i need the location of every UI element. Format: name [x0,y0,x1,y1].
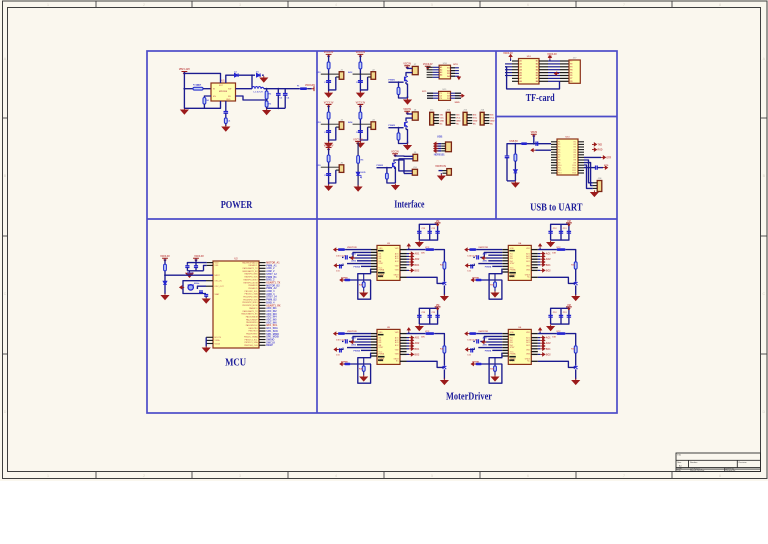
wire right top2 5 [434,334,444,346]
svg-text:VCC3.3V: VCC3.3V [305,84,315,87]
arrow vm out 6 [539,328,542,332]
svg-text:PB11/I2C_SDA: PB11/I2C_SDA [245,293,259,296]
svg-text:4: 4 [335,3,337,7]
resistor bead bottom 3 [344,279,350,282]
resistor R4a [359,112,362,119]
svg-text:BO2: BO2 [415,354,420,356]
wires USB [436,143,441,145]
driver pin names 5 [379,332,400,363]
pin text U10 [440,66,450,78]
connector pin stub 2 [368,76,371,78]
driver cap cluster loop 3 [419,224,437,240]
svg-text:BO1: BO1 [546,349,551,351]
wire stby 5 [347,347,371,349]
svg-text:SIG: SIG [490,115,494,117]
wire flag to JM3a pin1 [395,155,413,157]
wire res to transistor 4 [575,269,577,281]
svg-text:PA11/USBDM: PA11/USBDM [246,315,258,318]
svg-text:2: 2 [143,474,145,478]
svg-text:Sheet1.SchDoc: Sheet1.SchDoc [690,469,704,472]
ground GND boot [203,346,210,352]
wire U1 bst up [184,73,220,83]
driver left pin stubs 6 [502,333,508,335]
wire in2 4 [488,254,502,256]
wire pwmb loop 5 [358,353,371,383]
driver right pin stubs 5 [400,333,407,335]
svg-text:B2: B2 [447,70,449,72]
capacitor C3a [326,131,331,133]
section divider vertical x=317 [316,51,318,413]
svg-text:VCC: VCC [440,118,445,120]
capacitor C20 [186,264,188,267]
capacitor cluster C3a [417,231,421,233]
arrow U11 [460,94,465,97]
wire R5 gnd [225,123,227,126]
arrow bottom 6 [471,363,476,366]
svg-text:PWM3: PWM3 [377,165,384,167]
svg-text:A3: A3 [520,66,522,69]
capacitor left 6b [471,348,473,352]
svg-text:A8: A8 [520,80,522,83]
title block frame [676,453,761,472]
power flag M2 [404,111,410,114]
wire in4 3 [357,260,371,262]
svg-text:BEEP: BEEP [266,344,273,347]
pin names U13 [558,142,576,175]
wire Q3 source [394,168,395,183]
wire L route 2 [360,77,367,90]
pin stub right 18 [259,310,266,312]
pin stub right 5 [259,273,266,275]
svg-text:VCC3.3V: VCC3.3V [356,52,366,54]
svg-text:POWER: POWER [221,200,253,211]
ground GND J16 [438,174,445,180]
svg-text:VM2: VM2 [395,350,399,352]
ground GND2 [357,91,364,97]
svg-text:PWMA: PWMA [485,265,492,268]
svg-text:VSSA: VSSA [215,339,221,342]
svg-text:BO2: BO2 [546,270,551,272]
power flag cluster 3 [435,223,441,226]
svg-text:A2: A2 [520,63,522,66]
wire FB junction [266,99,268,101]
pin line 3 [321,123,339,125]
svg-text:AO1: AO1 [546,337,551,340]
crystal Y1 [188,285,193,290]
svg-text:AIN1: AIN1 [483,252,489,255]
wire R20 to led [514,161,516,169]
pin stub right 28 [259,339,266,341]
ground GND loop 4 [491,291,498,297]
pin stub right 16 [259,304,266,306]
wire right long 5 [407,361,445,367]
svg-text:HDR01B1: HDR01B1 [434,154,446,157]
svg-text:VBAT: VBAT [215,293,221,296]
svg-text:VIN 5-12V: VIN 5-12V [179,68,190,71]
crystal loop [183,281,206,294]
wire res to transistor 6 [575,353,577,365]
connector J3 [339,122,344,130]
svg-text:BO1: BO1 [415,265,420,267]
pin stub right 20 [259,316,266,318]
svg-text:AD1: AD1 [316,71,321,74]
mcu pin names inside [241,261,258,347]
svg-text:VCC: VCC [425,331,430,333]
transistor right 4 [574,281,578,285]
svg-text:3: 3 [239,3,241,7]
wire pwmb loop 6 [489,353,502,383]
transistor Q2 [404,122,406,127]
wire stby 3 [347,263,371,265]
connector J1 [339,72,344,80]
mcu bottom-left pins [206,336,213,338]
resistor right v 6 [574,346,577,353]
svg-text:B3: B3 [447,73,449,75]
svg-text:BO2: BO2 [546,354,551,356]
svg-text:PWMB: PWMB [341,361,348,363]
svg-text:PWMA: PWMA [510,269,516,272]
svg-text:SWD: SWD [454,102,460,104]
gate wire 2 [388,127,403,129]
power flag mcu vdd [193,258,199,261]
wire right long 4 [538,277,576,283]
svg-text:AIN2: AIN2 [483,344,489,347]
svg-text:PA0/WKUP/ADC0: PA0/WKUP/ADC0 [242,261,257,264]
svg-text:VM: VM [567,221,571,223]
ground GND M3 [392,184,399,190]
svg-text:VDD: VDD [215,262,220,264]
wire nrst horizontal [165,274,213,276]
mcu left pin names [215,262,225,345]
connector J18 [597,181,602,192]
svg-text:VCC3.3V: VCC3.3V [356,102,366,104]
capacitor cluster C5c [435,315,439,317]
svg-text:STBY: STBY [379,263,384,265]
svg-text:Interface: Interface [394,200,424,211]
svg-text:I2C1: I2C1 [422,91,427,93]
driver ic U6 [508,329,531,364]
wire stby 4 [478,263,502,265]
svg-text:R13: R13 [573,173,576,175]
resistor bead bottom 5 [344,363,350,366]
pin stub right 9 [259,284,266,286]
power flag cluster 4 [566,223,572,226]
driver right pin stubs 6 [531,333,538,335]
power flag VCC3.3 [312,86,315,91]
transistor Q1 [404,77,406,82]
ground GND6 [355,185,362,191]
resistor bead bottom 6 [476,363,482,366]
capacitor C11 [505,156,510,158]
resistor bead left 3 [338,248,345,251]
svg-text:AO2: AO2 [415,342,420,345]
wire SW node vertical [251,75,253,89]
svg-text:P4: P4 [570,68,572,71]
svg-text:B8: B8 [536,81,538,83]
svg-text:VM2: VM2 [526,350,530,352]
wire res to transistor 5 [443,353,445,365]
wire cap gnd 5 [342,340,344,342]
svg-text:PA9/USART1_TX: PA9/USART1_TX [243,310,259,313]
svg-text:C10 0.1uF: C10 0.1uF [336,256,346,258]
svg-text:MP2359: MP2359 [219,91,228,93]
pins U12 left [512,60,519,62]
driver ic U3 [377,245,400,280]
svg-text:GND: GND [440,121,445,123]
svg-text:5: 5 [431,474,433,478]
decoupling rail [187,270,203,272]
wire C11 down [506,158,508,181]
svg-text:PB0/ADC8: PB0/ADC8 [248,284,257,287]
wire M3 loop [387,179,396,183]
driver ic black marks 4 [509,250,516,277]
wire C5 to R5 [225,113,227,118]
wire conn pin1 2 [407,113,412,114]
wire bottom left 6 [482,363,502,365]
capacitor cluster C4c [567,231,571,233]
wire conn pin1 1 [407,67,412,68]
svg-text:STBY: STBY [510,347,515,349]
pin stub right 10 [259,287,266,289]
capacitor cluster C6c [567,315,571,317]
ground GND decoupling [186,271,193,277]
arrow vm 4 [465,248,470,251]
pin line 1 [321,73,339,75]
svg-text:AO1: AO1 [546,253,551,256]
wire res to transistor 3 [443,269,445,281]
resistor right 6 [557,332,566,335]
svg-text:VM3: VM3 [395,270,399,272]
pin stub right 1 [259,262,266,264]
wire source loop 1 [399,95,408,99]
ferrite bead FB2 [521,142,527,145]
svg-text:BO1: BO1 [526,342,530,344]
svg-text:L1 4.7uH: L1 4.7uH [253,91,263,94]
wire bottom loop [184,101,220,108]
svg-text:PA14/SWCLK: PA14/SWCLK [246,324,258,327]
svg-text:3: 3 [239,474,241,478]
svg-text:VCC: VCC [473,118,478,120]
svg-text:BO2: BO2 [526,345,530,347]
pin stub right 7 [259,279,266,281]
arrow vm out 5 [407,328,410,332]
svg-text:AO1: AO1 [415,337,420,340]
capacitor cluster C6b [559,315,563,317]
wire vbus riser [533,135,535,144]
capacitor C12 [596,166,598,170]
svg-text:C10 0.1uF: C10 0.1uF [467,256,477,258]
svg-text:VCC3.3V: VCC3.3V [503,53,513,55]
svg-text:PA4/SPI1_NSS: PA4/SPI1_NSS [245,273,259,276]
wire pwmb loop 3 [358,269,371,299]
capacitor left 5b [340,348,342,352]
connector pin stub 4 [368,126,371,128]
wire c12 [584,167,596,169]
mcu osc pins [206,280,213,282]
pins J18 [593,182,597,184]
resistor R5 [224,118,227,124]
svg-text:IN3: IN3 [379,258,382,260]
connector JM3a [413,154,418,161]
svg-text:NRST: NRST [187,273,194,275]
svg-text:AO2: AO2 [415,258,420,261]
svg-text:VCC3.3V: VCC3.3V [423,64,433,66]
diode D1 [257,73,261,77]
svg-text:GND: GND [510,332,515,334]
wire bottom left 5 [351,363,371,365]
junction M2 [398,127,400,129]
svg-text:VM2: VM2 [395,266,399,268]
power flag cluster 5 [435,307,441,310]
ground GND loop 6 [491,375,498,381]
wire conn pin2 1 [406,73,412,76]
pin text J17 [570,61,572,83]
led D3 nrst [163,281,167,284]
driver right pin stubs 4 [531,249,538,251]
value labels drivers [336,228,576,370]
svg-text:4: 4 [335,474,337,478]
wire pwma 3 [361,265,371,267]
wire in1 5 [349,336,371,341]
svg-text:2: 2 [143,3,145,7]
svg-text:7: 7 [623,474,625,478]
wire uart top rail [509,143,551,145]
wire R1 to U1 [203,88,211,90]
wires U11 left [427,92,439,94]
pin stub right 26 [259,333,266,335]
svg-text:A6: A6 [520,74,522,77]
svg-text:10K: 10K [552,337,556,339]
capacitor C4 [284,89,286,94]
svg-text:VCC: VCC [456,118,461,120]
svg-text:GND: GND [379,332,384,334]
svg-text:VCC3.3V: VCC3.3V [353,139,363,141]
wire main vertical 3 [328,106,330,142]
wire JM3b pin1 [399,159,413,171]
resistor bead bottom 4 [476,279,482,282]
resistor loop 5 [362,366,365,371]
pins USB [441,143,445,145]
svg-text:VM2: VM2 [526,266,530,268]
svg-text:AIN1: AIN1 [483,336,489,339]
power flag P6 [355,142,361,145]
wire nrst vertical [164,259,166,294]
ground GND power-left [181,108,188,114]
svg-text:BO2: BO2 [526,261,530,263]
wire transistor gnd 3 [443,285,445,295]
svg-text:SIG: SIG [440,115,444,117]
resistor right 3 [425,248,434,251]
pin stub right 3 [259,267,266,269]
ground GND M2 [404,144,411,150]
connector J16 [447,169,452,176]
ferrite bead FB1 [300,87,308,90]
wire L1 to output [264,88,300,90]
svg-text:R1 100K: R1 100K [193,85,202,87]
junction M1 [398,81,400,83]
wire cap gnd 3 [342,256,344,258]
svg-text:PB13/SPI2_SCK: PB13/SPI2_SCK [243,299,258,301]
svg-text:BOOT0: BOOT0 [215,337,221,339]
capacitor C3 [277,89,279,94]
ground GND uart [512,181,519,187]
wire vdd drop [195,259,197,262]
svg-text:RTS: RTS [604,165,609,167]
led D6 [356,172,360,175]
gate wire M3 [377,167,393,169]
connector JM2 [412,112,418,120]
wire R4 down [203,104,205,108]
svg-text:SIG: SIG [456,115,460,117]
connector pin stub 1 [336,76,339,78]
resistor R4 [203,98,206,105]
svg-text:BO1: BO1 [526,258,530,260]
wire top branch [252,74,255,76]
arrow vm out 4 [539,244,542,248]
svg-text:PWMB: PWMB [341,277,348,279]
svg-text:5: 5 [431,3,433,7]
wire JM3a pin2 [399,158,413,160]
svg-text:B1: B1 [447,68,449,70]
wire vm in 5 [345,333,371,335]
arrows USB [434,142,439,145]
svg-text:PA12/USBDP: PA12/USBDP [246,318,258,321]
svg-text:Drawn By:: Drawn By: [726,469,736,472]
pin stub right 4 [259,270,266,272]
capacitor C2a [358,81,363,83]
wire in3 4 [484,257,502,259]
resistor bead left 6 [469,332,476,335]
ground GND J18 [591,190,598,196]
wires U10 right [451,67,459,69]
pins U13 right [578,141,584,143]
wire arrow to ic [536,149,552,151]
wire in4 4 [488,260,502,262]
wire vm in 4 [476,249,502,251]
svg-text:PA6/SPI1_MISO: PA6/SPI1_MISO [244,278,258,281]
svg-text:BO1: BO1 [546,265,551,267]
svg-text:10K: 10K [421,253,425,255]
svg-text:B4: B4 [447,75,449,78]
svg-text:PB15/SPI2_MOSI: PB15/SPI2_MOSI [242,305,258,307]
wire source loop 2 [399,140,408,144]
wire TF loop2 [505,66,507,68]
svg-text:USB to UART: USB to UART [530,202,582,213]
svg-text:B7: B7 [536,78,538,80]
pin stub right 2 [259,264,266,266]
wire main vertical 1 [328,55,330,91]
svg-text:PWMB: PWMB [472,277,479,279]
svg-text:1: 1 [47,3,49,7]
pins U12 right [539,60,548,62]
svg-text:IN3: IN3 [379,342,382,344]
wire main vertical 4 [359,106,361,142]
wire flag drop U10 [427,66,429,68]
pin stub right 12 [259,293,266,295]
resistor right v 5 [443,346,446,353]
wire pwma 5 [361,349,371,351]
pins J14 [484,114,489,116]
svg-text:File:: File: [677,470,681,472]
svg-text:10K: 10K [552,253,556,255]
capacitor left 5a [346,339,348,343]
capacitor C21 [195,263,197,266]
resistor R20 [514,154,517,161]
svg-text:VCC3.3V: VCC3.3V [160,256,170,258]
svg-text:DTR: DTR [607,157,612,159]
ground GND nrst [161,294,168,300]
svg-text:PA8/MCO: PA8/MCO [249,307,258,310]
